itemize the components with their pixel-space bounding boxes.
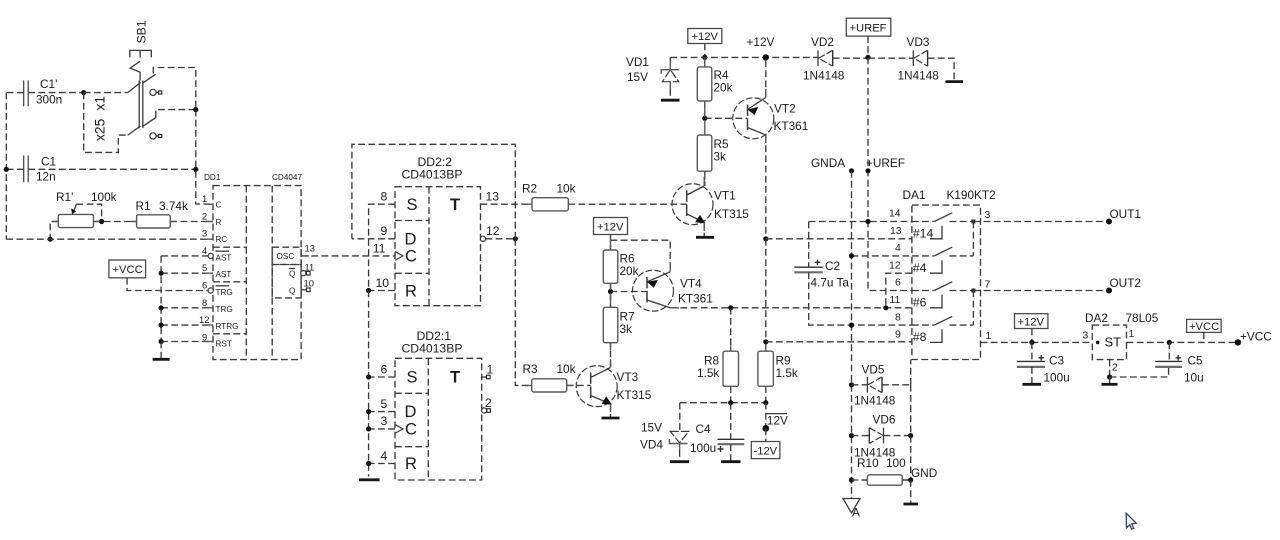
+12V label box right	[1015, 314, 1048, 329]
DA2 pin2 stub	[1107, 360, 1118, 384]
IC DA1 K190KT2 box	[903, 188, 996, 360]
+VCC label box right	[1187, 319, 1222, 342]
wire x25 input loop	[84, 93, 141, 153]
svg-text:8: 8	[381, 190, 388, 204]
node +UREF rail	[865, 55, 870, 60]
svg-text:+12V: +12V	[692, 31, 719, 43]
DA1 pin7 OUT2 wire	[973, 276, 1141, 294]
DD1 pin11 Qbar output	[289, 262, 314, 279]
DD1 pin13 OSC output	[301, 243, 395, 256]
svg-text:S: S	[407, 196, 418, 214]
svg-text:RC: RC	[216, 235, 228, 244]
node VT2 collector junction	[763, 236, 768, 241]
svg-text:RTRG: RTRG	[216, 322, 239, 331]
wire R3 to VT3 base	[567, 384, 591, 386]
svg-text:VT3: VT3	[617, 370, 639, 384]
svg-text:K190KT2: K190KT2	[947, 188, 996, 202]
mouse cursor	[1126, 513, 1136, 529]
IC DD2:2 CD4013BP box	[395, 155, 481, 306]
svg-text:x25: x25	[93, 118, 108, 141]
svg-text:C5: C5	[1188, 354, 1204, 368]
node switch output	[193, 107, 198, 112]
svg-text:4: 4	[895, 243, 901, 254]
svg-text:KT361: KT361	[678, 292, 713, 306]
DD2:1 pin6 wire	[366, 362, 395, 379]
ground DD2 bus	[359, 478, 380, 481]
wire -12V row	[680, 402, 766, 404]
switch movable bar	[139, 81, 143, 129]
resistor R1	[136, 199, 188, 228]
svg-text:D: D	[405, 403, 417, 421]
wire resistor lead stubs	[52, 59, 908, 481]
svg-text:CD4047: CD4047	[272, 173, 302, 182]
svg-text:13: 13	[486, 190, 500, 204]
DA1 output tie verticals	[972, 222, 974, 256]
svg-text:1: 1	[1129, 329, 1135, 340]
svg-text:OSC: OSC	[277, 252, 295, 261]
wire VT3 collector to R7	[610, 343, 612, 368]
svg-text:T: T	[450, 196, 460, 214]
switch SB1 button symbol	[130, 20, 152, 80]
wire left bus	[5, 93, 7, 240]
svg-text:C: C	[405, 248, 417, 266]
wire +VCC to DD1 pin6	[127, 278, 208, 291]
svg-text:12: 12	[486, 224, 500, 238]
wire C5 bottom loop	[1110, 367, 1169, 377]
IC DD2:1 CD4013BP box	[395, 329, 482, 480]
wire node to DA1 pin13	[766, 238, 912, 240]
svg-text:+VCC: +VCC	[1240, 330, 1272, 344]
capacitor C2	[794, 222, 912, 326]
wire VT4 collector to DA1 pin11	[670, 307, 912, 309]
node -12V	[762, 425, 769, 432]
IC DD1 CD4047 box	[204, 173, 302, 360]
wire node to DA1 pin9	[766, 341, 912, 343]
svg-text:12V: 12V	[767, 414, 788, 428]
svg-text:4: 4	[381, 449, 388, 463]
svg-text:CD4013BP: CD4013BP	[402, 168, 463, 182]
capacitor C3	[1017, 342, 1070, 384]
svg-text:CD4013BP: CD4013BP	[402, 342, 463, 356]
node GNDA pin8 junction	[849, 323, 854, 328]
contact circle 2	[150, 133, 162, 139]
node on left bus at C1	[4, 167, 9, 172]
svg-text:+VCC: +VCC	[1189, 321, 1219, 333]
capacitor C1'	[24, 77, 63, 107]
ground GNDA triangle A	[843, 499, 860, 520]
resistor R7	[603, 307, 634, 342]
wire right bus to DD1 pin1	[196, 110, 213, 204]
svg-text:1: 1	[202, 193, 207, 204]
diode VD6 1N4148	[849, 413, 913, 460]
svg-text:1N4148: 1N4148	[854, 394, 896, 408]
svg-text:KT361: KT361	[774, 119, 809, 133]
DD2:2 pin8 S wire	[369, 190, 395, 291]
svg-text:1N4148: 1N4148	[898, 69, 940, 83]
svg-text:GND: GND	[911, 466, 937, 480]
svg-text:3: 3	[381, 414, 388, 428]
DA1 switch cell 2	[912, 247, 974, 275]
ground VD1	[661, 99, 680, 102]
DA1 output pads	[971, 220, 975, 224]
svg-text:15V: 15V	[641, 421, 662, 435]
ground DD1 bus	[153, 342, 170, 360]
DD2:2 pin13 output wire to R2	[481, 190, 533, 205]
svg-text:VD4: VD4	[640, 438, 663, 452]
svg-text:Q: Q	[289, 286, 295, 295]
DD1 pin4 AST inv	[202, 245, 231, 263]
switch throw contact 2	[143, 110, 196, 127]
svg-text:15V: 15V	[627, 70, 648, 84]
svg-text:5: 5	[381, 397, 388, 411]
svg-text:100: 100	[886, 456, 906, 470]
svg-text:20k: 20k	[714, 81, 733, 95]
svg-text:11: 11	[890, 295, 901, 306]
wire VT2 base	[705, 117, 748, 119]
svg-text:+UREF: +UREF	[850, 23, 887, 35]
svg-text:5: 5	[202, 262, 207, 273]
IC DA2 78L05	[1083, 311, 1159, 360]
node +UREF pin14 row	[865, 219, 870, 224]
svg-text:VD3: VD3	[907, 35, 930, 49]
svg-text:RST: RST	[216, 339, 232, 348]
svg-text:3: 3	[202, 228, 207, 239]
svg-text:VD6: VD6	[873, 413, 896, 427]
svg-text:R1': R1'	[56, 190, 73, 204]
svg-text:VD2: VD2	[811, 35, 834, 49]
svg-text:3k: 3k	[714, 150, 727, 164]
resistor R6	[603, 250, 638, 307]
svg-text:#8: #8	[913, 330, 927, 344]
wire R1' to R1	[94, 221, 137, 223]
DD1 pin10 Q output	[289, 278, 314, 296]
DA1 pin3 OUT1 wire	[973, 207, 1141, 225]
svg-text:#4: #4	[913, 261, 927, 275]
DA1 switch cell 1	[912, 213, 974, 241]
node R4 R5 junction	[702, 116, 707, 121]
wire R1 to DD1 pin2	[170, 221, 213, 223]
-12V net label overline	[766, 403, 788, 429]
svg-text:4: 4	[202, 245, 207, 256]
svg-text:+12V: +12V	[1018, 317, 1045, 329]
node R1' right	[99, 219, 104, 224]
svg-text:OUT2: OUT2	[1110, 276, 1141, 290]
svg-text:SB1: SB1	[135, 20, 149, 43]
ground C3	[1023, 383, 1042, 386]
wire VD5 right up to DA1	[910, 360, 912, 385]
wire GNDA vertical	[851, 171, 853, 499]
wire R1' left lead	[50, 222, 58, 240]
capacitor C4	[690, 403, 744, 461]
diode VD2 1N4148	[803, 35, 868, 83]
zener VD1	[626, 55, 679, 99]
capacitor C5	[1155, 342, 1203, 384]
wire R1' wiper loop	[76, 204, 101, 221]
svg-text:TRG: TRG	[216, 288, 233, 297]
svg-text:8: 8	[895, 312, 901, 323]
svg-text:VD5: VD5	[862, 363, 885, 377]
svg-text:14: 14	[889, 209, 901, 220]
wire +UREF stub	[867, 36, 869, 57]
svg-text:+VCC: +VCC	[113, 264, 143, 276]
svg-text:R: R	[216, 218, 222, 227]
wire DD1 pin12	[161, 324, 213, 326]
svg-text:+12V: +12V	[597, 222, 624, 234]
svg-text:VT2: VT2	[774, 102, 796, 116]
wire +UREF vertical	[868, 57, 912, 290]
svg-text:+12V: +12V	[747, 35, 775, 49]
wire DD1 pin9	[161, 341, 213, 343]
resistor R5	[697, 135, 729, 186]
svg-text:7: 7	[985, 279, 991, 290]
+12V label box top	[688, 29, 722, 44]
svg-text:6: 6	[381, 362, 388, 376]
resistor R8	[697, 351, 739, 403]
DD2:1 pin5 wire	[366, 397, 395, 414]
svg-text:3k: 3k	[620, 322, 633, 336]
svg-text:3.74k: 3.74k	[159, 199, 188, 213]
svg-text:Q: Q	[289, 270, 295, 279]
svg-text:KT315: KT315	[617, 388, 652, 402]
DA1 switch cell 3	[912, 282, 974, 310]
node C1 right bus	[193, 167, 198, 172]
svg-text:13: 13	[890, 226, 902, 237]
svg-text:12: 12	[889, 260, 901, 271]
resistor R10	[849, 456, 913, 485]
svg-text:6: 6	[895, 278, 901, 289]
wire transistor lead stubs	[611, 89, 766, 412]
svg-text:DA1: DA1	[903, 188, 926, 202]
svg-text:3: 3	[985, 210, 991, 221]
svg-text:R10: R10	[857, 456, 879, 470]
svg-text:R: R	[405, 283, 417, 301]
DD2:1 clock chevron	[395, 425, 403, 434]
node R9 top junction	[763, 339, 768, 344]
ground VD4	[670, 460, 689, 463]
transistor VT2 KT361	[733, 98, 808, 139]
ground GND bar	[904, 480, 919, 504]
ground VT3	[602, 417, 620, 420]
node R6 R7 junction	[608, 289, 613, 294]
svg-text:78L05: 78L05	[1126, 311, 1159, 325]
resistor R9	[758, 351, 798, 403]
svg-text:A: A	[852, 506, 860, 520]
node GNDA label	[849, 168, 854, 173]
svg-text:300n: 300n	[36, 93, 62, 107]
svg-text:2: 2	[202, 210, 207, 221]
svg-text:+UREF: +UREF	[866, 156, 905, 170]
DD2:1 pin4 wire	[366, 449, 395, 466]
wire DD1 pin4	[161, 255, 208, 257]
wire R8 top lead	[730, 308, 732, 351]
svg-text:C2: C2	[825, 259, 840, 273]
svg-text:C: C	[216, 201, 222, 210]
svg-text:DA2: DA2	[1085, 311, 1108, 325]
svg-text:4.7u Ta: 4.7u Ta	[811, 276, 850, 290]
DD2:1 pin1 output pad	[482, 362, 494, 379]
svg-text:VT4: VT4	[680, 277, 702, 291]
wire DA2 out	[1127, 341, 1238, 343]
svg-text:TRG: TRG	[216, 305, 233, 314]
svg-text:10k: 10k	[557, 182, 576, 196]
ground C4	[721, 460, 741, 463]
wire Q12 down to R3	[515, 239, 531, 386]
wire C1 right	[28, 168, 196, 170]
svg-text:100u: 100u	[690, 441, 716, 455]
node GNDA pin4 junction	[849, 253, 854, 258]
+12V label box mid	[594, 218, 628, 235]
zener VD4	[640, 403, 689, 461]
ground DA2	[1102, 383, 1118, 386]
svg-text:9: 9	[895, 330, 901, 341]
wire DA1 pin12 row	[886, 273, 912, 308]
node R8 top	[728, 305, 733, 310]
DD1 OSC box	[272, 247, 301, 264]
wire x1 input	[84, 83, 141, 93]
wire top rail	[670, 56, 818, 58]
DD2:1 pin3 wire	[366, 414, 395, 431]
svg-text:10: 10	[376, 276, 390, 290]
svg-text:R: R	[405, 455, 417, 473]
resistor R4	[697, 57, 732, 118]
wire C1' right to node A	[28, 92, 83, 94]
diode VD3 1N4148	[868, 35, 954, 83]
svg-text:9: 9	[202, 331, 207, 342]
wire C1 left	[6, 168, 23, 170]
svg-text:6: 6	[202, 280, 207, 291]
svg-text:KT315: KT315	[714, 207, 749, 221]
svg-text:10: 10	[304, 278, 314, 289]
wire DD1 pin lead stubs	[205, 204, 309, 341]
wire VT4 base	[611, 291, 648, 293]
wire VT2 collector down	[765, 135, 767, 239]
svg-text:10u: 10u	[1184, 371, 1204, 385]
DD2:1 pin2 output inv pad	[482, 396, 493, 413]
DD2:2 pin9 D wire	[352, 224, 395, 239]
svg-text:C3: C3	[1049, 354, 1065, 368]
svg-text:12: 12	[199, 314, 209, 325]
resistor R2	[522, 182, 576, 211]
svg-text:C1: C1	[41, 155, 56, 169]
svg-text:C1': C1'	[40, 77, 57, 91]
svg-text:OUT1: OUT1	[1110, 207, 1141, 221]
node pin12 pin11 junction	[883, 305, 888, 310]
wire +12V to R6	[610, 235, 612, 251]
+UREF label box	[846, 18, 891, 36]
DA1 pin1 wire	[981, 331, 1093, 342]
capacitor C1	[24, 155, 56, 184]
wire +12V branch to VT4 emitter	[611, 240, 671, 272]
ground VD3	[946, 80, 964, 83]
svg-text:GNDA: GNDA	[811, 156, 845, 170]
svg-text:AST: AST	[216, 270, 232, 279]
wire VT2 emitter to rail	[765, 57, 767, 97]
wire +12V stub to pin1 wire	[1031, 329, 1033, 343]
+VCC label box	[109, 260, 146, 278]
wire down to R9	[765, 239, 767, 351]
wire DD1 pin5	[161, 272, 213, 274]
DD2:2 pin12 output inv	[480, 224, 518, 241]
potentiometer R1'	[56, 190, 117, 228]
contact circle 1	[150, 89, 162, 95]
svg-text:3: 3	[1083, 331, 1089, 342]
node +UREF label	[865, 168, 870, 173]
svg-text:S: S	[407, 369, 418, 387]
-12V label box	[751, 428, 780, 458]
wire feedback loop Q12 to D9	[352, 144, 515, 239]
svg-text:100k: 100k	[91, 190, 117, 204]
svg-text:2: 2	[485, 396, 492, 410]
svg-text:11: 11	[373, 241, 386, 255]
svg-text:10k: 10k	[557, 362, 576, 376]
svg-text:1: 1	[986, 331, 992, 342]
svg-text:VD1: VD1	[626, 55, 649, 69]
resistor R3	[523, 362, 576, 392]
wire DD1 pin8	[161, 307, 213, 309]
svg-text:R3: R3	[523, 362, 539, 376]
wire VD5 VD6 right vertical	[910, 385, 912, 480]
svg-text:#6: #6	[913, 296, 927, 310]
svg-text:VT1: VT1	[714, 189, 736, 203]
svg-text:1N4148: 1N4148	[803, 69, 845, 83]
svg-text:13: 13	[305, 243, 315, 254]
node +VCC terminal	[1235, 339, 1241, 345]
node +12V rail	[702, 55, 707, 60]
svg-text:D: D	[405, 231, 417, 249]
svg-text:100u: 100u	[1044, 371, 1070, 385]
wire R2 to VT1 base	[568, 203, 686, 205]
svg-text:9: 9	[381, 224, 388, 238]
svg-text:R1: R1	[136, 199, 151, 213]
wire bottom bus to DD1 pin3	[6, 238, 213, 240]
DD1 Q outputs box	[272, 265, 301, 298]
DD1 pin6 TRG inv	[202, 280, 233, 298]
svg-text:20k: 20k	[620, 264, 639, 278]
wire +12V stub	[704, 44, 706, 58]
svg-text:ST: ST	[1105, 335, 1122, 350]
svg-text:1.5k: 1.5k	[697, 366, 719, 380]
svg-text:C4: C4	[696, 422, 712, 436]
wire DA1 pin4 row	[852, 255, 912, 257]
switch throw contact 1	[143, 68, 196, 110]
svg-text:-12V: -12V	[754, 446, 778, 458]
svg-text:1.5k: 1.5k	[776, 366, 798, 380]
svg-text:12n: 12n	[36, 170, 56, 184]
wire C1' left	[6, 92, 23, 94]
transistor VT4 KT361	[633, 270, 713, 311]
svg-text:T: T	[450, 369, 460, 387]
wire VT3 emitter to ground	[610, 404, 612, 417]
diode VD5 1N4148	[849, 363, 911, 408]
transistor VT3 KT315	[576, 366, 651, 407]
svg-text:DD1: DD1	[204, 173, 221, 182]
node R9 bottom	[763, 400, 768, 405]
wire DA1 pin14 row	[809, 221, 912, 223]
svg-text:1: 1	[487, 362, 494, 376]
transistor VT1 KT315	[672, 184, 749, 225]
wire DD1 ground bus	[160, 256, 162, 342]
node A junction	[81, 90, 86, 95]
wire VT1 emitter to ground	[703, 223, 705, 237]
svg-text:AST: AST	[216, 253, 232, 262]
svg-text:8: 8	[202, 297, 207, 308]
wire DD2 ground bus	[368, 291, 370, 477]
DD2:2 clock chevron	[395, 252, 403, 261]
ground VT1	[696, 236, 714, 239]
svg-text:x1: x1	[93, 96, 108, 111]
DA1 switch cell 4	[912, 316, 974, 344]
node R1' bottom	[48, 237, 53, 242]
